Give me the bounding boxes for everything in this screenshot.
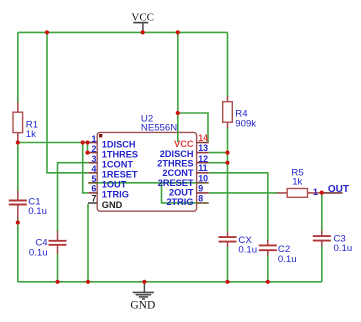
pin 11 stub: [196, 172, 208, 174]
U2 pin stubs left: [88, 143, 97, 204]
pin 3 stub: [88, 162, 97, 164]
node rail/C4: [55, 280, 59, 284]
svg-text:11: 11: [198, 163, 207, 173]
capacitor CX leads: [227, 232, 229, 237]
svg-text:13: 13: [198, 143, 208, 153]
node below C1: [16, 220, 20, 224]
wire CX bottom to rail: [227, 247, 229, 282]
U2 pin numbers right: [198, 133, 208, 204]
wire R1 bottom to pin1: [18, 142, 89, 144]
svg-text:1RESET: 1RESET: [102, 170, 138, 180]
pin 14 stub: [196, 142, 208, 144]
svg-text:0.1u: 0.1u: [28, 206, 47, 217]
svg-text:VCC: VCC: [131, 11, 154, 23]
node pin2: [85, 151, 89, 155]
node VCC rail/U2 drop: [176, 30, 180, 34]
svg-text:2: 2: [91, 144, 96, 154]
svg-text:1OUT: 1OUT: [102, 180, 127, 190]
svg-text:9: 9: [198, 183, 203, 193]
svg-text:1TRIG: 1TRIG: [102, 190, 129, 200]
wire C2 bottom to rail: [267, 255, 269, 282]
svg-text:14: 14: [198, 133, 208, 143]
wire drop to 2TRIG: [162, 183, 197, 203]
node VCC rail/symbol: [141, 30, 145, 34]
node rail/GND symbol: [142, 280, 146, 284]
U2 pin names right: [157, 139, 194, 207]
wire OUT node down to C3: [321, 193, 323, 231]
svg-text:NE556N: NE556N: [141, 122, 177, 133]
wire 2CONT pin11 to C2: [209, 173, 268, 241]
wire 2DISCH pin13 to R4 column: [209, 152, 228, 154]
resistor R4 body: [223, 102, 233, 123]
U2 pin stubs right: [196, 143, 208, 204]
U2 pin names left: [102, 139, 138, 210]
svg-text:6: 6: [91, 184, 96, 194]
node R1 bottom: [16, 140, 20, 144]
pin 13 stub: [196, 152, 208, 154]
wire 2OUT pin9 to R5: [209, 192, 278, 194]
svg-text:VCC: VCC: [174, 139, 194, 149]
svg-text:2RESET: 2RESET: [158, 178, 194, 188]
svg-text:1k: 1k: [292, 177, 302, 188]
component leads dark red: [18, 96, 322, 256]
wire node to 1TRIG pin6: [83, 143, 89, 193]
svg-text:2OUT: 2OUT: [169, 188, 194, 198]
node rail/CX: [225, 280, 229, 284]
svg-text:0.1u: 0.1u: [278, 254, 297, 265]
wire GND pin down: [87, 204, 89, 282]
OUT port: [313, 184, 349, 197]
U2 pin numbers left: [91, 134, 96, 204]
wire node jog to 1THRES pin2: [87, 143, 90, 153]
pin 6 stub: [88, 192, 97, 194]
svg-text:1THRES: 1THRES: [102, 149, 138, 159]
wire 1OUT row inside U2 overlay: [97, 182, 196, 184]
svg-text:2DISCH: 2DISCH: [160, 149, 194, 159]
node thres branch: [85, 140, 89, 144]
resistor R5 body: [287, 189, 307, 198]
wire left vertical to R1: [17, 32, 19, 102]
svg-text:GND: GND: [130, 300, 155, 312]
svg-text:2CONT: 2CONT: [162, 168, 194, 178]
node rail/C2: [266, 280, 270, 284]
svg-text:4: 4: [91, 164, 96, 174]
wire 2THRES pin12 to R4 column: [209, 162, 228, 164]
pin 9 stub: [196, 192, 208, 194]
wire VCC drop into U2 overlay: [177, 132, 179, 142]
wire top rail VCC: [18, 31, 228, 33]
op-amp U2 NE556N body: [97, 132, 196, 211]
svg-text:1: 1: [91, 134, 96, 144]
pin 8 stub: [196, 202, 208, 204]
wire R1 node down to C1: [17, 143, 19, 192]
VCC power symbol: [131, 11, 154, 32]
node OUT: [320, 191, 324, 195]
node elbow pin14: [176, 111, 180, 115]
wire 1CONT pin3 to C4: [58, 163, 89, 232]
capacitor C2 plates: [259, 245, 277, 250]
U2 origin marker: [99, 134, 102, 137]
svg-text:1: 1: [313, 187, 318, 197]
svg-text:GND: GND: [102, 200, 123, 210]
wire 1OUT row through U2: [88, 182, 196, 184]
capacitor C3 leads: [321, 231, 323, 236]
wire C3 bottom to rail: [321, 246, 323, 282]
node pin13/R4: [225, 151, 229, 155]
wire VCC drop into U2: [177, 32, 179, 142]
wire VCC to 1RESET pin4: [47, 32, 88, 172]
wire bottom rail: [18, 281, 322, 283]
resistor R1 leads: [17, 102, 19, 112]
capacitor C1 plates: [9, 201, 27, 205]
node rail/GND wire: [86, 280, 90, 284]
GND power symbol: [130, 282, 155, 312]
capacitor C3 plates: [313, 236, 331, 241]
capacitor CX plates: [219, 237, 237, 242]
capacitor C2 leads: [267, 240, 269, 245]
wire C1 bottom to rail: [17, 219, 19, 282]
svg-text:2THRES: 2THRES: [157, 159, 193, 169]
pin 2 stub: [88, 152, 97, 154]
node trig branch: [81, 140, 85, 144]
svg-text:0.1u: 0.1u: [29, 248, 48, 259]
svg-text:10: 10: [198, 173, 208, 183]
capacitor C4 plates: [49, 241, 67, 245]
capacitor C4 leads: [57, 231, 59, 240]
svg-text:909k: 909k: [235, 118, 256, 129]
capacitor C1 leads: [17, 191, 19, 200]
wire R4 top: [227, 32, 229, 96]
svg-text:5: 5: [91, 174, 96, 184]
svg-text:0.1u: 0.1u: [238, 245, 257, 256]
resistor R5 leads: [277, 192, 287, 194]
node VCC rail/reset drop: [45, 30, 49, 34]
svg-text:1k: 1k: [26, 129, 36, 140]
svg-text:1DISCH: 1DISCH: [102, 139, 136, 149]
resistor R1 body: [13, 112, 23, 132]
pin 12 stub: [196, 162, 208, 164]
pin 7 stub: [88, 202, 97, 204]
svg-text:8: 8: [198, 193, 203, 203]
svg-text:0.1u: 0.1u: [334, 243, 353, 254]
svg-text:3: 3: [91, 154, 96, 164]
svg-text:2TRIG: 2TRIG: [166, 197, 193, 207]
pin 4 stub: [88, 172, 97, 174]
pin 5 stub: [88, 182, 97, 184]
svg-text:OUT: OUT: [328, 184, 349, 195]
svg-text:7: 7: [91, 194, 96, 204]
wire C4 bottom to rail: [57, 254, 59, 282]
pin 1 stub: [88, 142, 97, 144]
node pin12/R4: [225, 161, 229, 165]
resistor R4 leads: [227, 96, 229, 102]
svg-text:1CONT: 1CONT: [102, 160, 134, 170]
wire elbow to pin 14: [178, 113, 208, 143]
pin 10 stub: [196, 182, 208, 184]
wire R4 bottom to CX: [227, 128, 229, 233]
